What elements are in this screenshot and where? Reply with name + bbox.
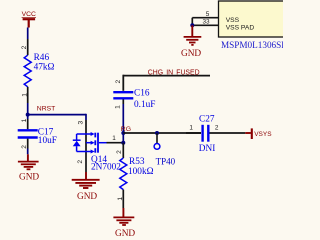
wire NRST corner down to Q14: [85, 114, 87, 120]
pin 2 of R53: [122, 143, 124, 158]
capacitor C17: [18, 127, 57, 146]
ground (IC): [184, 25, 202, 45]
svg-text:1: 1: [21, 93, 28, 97]
transistor Q14: [73, 132, 107, 154]
svg-text:NRST: NRST: [37, 106, 56, 113]
svg-text:VSS: VSS: [226, 17, 240, 24]
svg-text:TP40: TP40: [156, 157, 176, 167]
body diode cathode bar: [73, 139, 81, 141]
svg-text:0.1uF: 0.1uF: [134, 100, 155, 110]
bottom rail: [77, 151, 92, 153]
node TP40 junction: [155, 131, 159, 135]
IC U1 MSPM0L1306SRGER body: [219, 1, 307, 50]
ground (R53): [113, 208, 134, 225]
svg-text:GND: GND: [77, 192, 97, 202]
wire NRST node down to C17: [27, 115, 29, 119]
svg-text:VSYS: VSYS: [254, 131, 272, 138]
resistor R46: [24, 53, 54, 87]
pin 3 of Q14: [85, 120, 87, 134]
pin 1 of C16: [122, 99, 124, 104]
node chip ground junction: [190, 23, 194, 27]
svg-text:1: 1: [114, 105, 121, 109]
svg-text:10uF: 10uF: [38, 136, 57, 146]
node RG junction: [121, 131, 125, 135]
svg-text:5: 5: [206, 11, 210, 18]
svg-text:GND: GND: [181, 49, 201, 59]
channel segments: [94, 133, 96, 138]
capacitor C16: [113, 88, 155, 110]
wire C16 to RG node: [122, 104, 124, 133]
svg-text:C27: C27: [199, 115, 215, 125]
wire CHG IN FUSED: [123, 75, 210, 91]
body diode anode triangle: [73, 141, 81, 146]
pin 2 of Q14: [85, 152, 87, 173]
pin 1 of C17: [27, 119, 29, 129]
wire C17 to ground: [27, 149, 29, 155]
svg-text:2: 2: [21, 145, 28, 149]
wire pin5 to pin33: [191, 18, 193, 26]
test point TP40: [154, 133, 176, 167]
gate bar: [97, 133, 99, 153]
svg-text:1: 1: [117, 197, 124, 201]
wire R46 to NRST node: [27, 103, 29, 115]
svg-text:CHG IN FUSED: CHG IN FUSED: [148, 69, 200, 76]
svg-text:100kΩ: 100kΩ: [128, 167, 154, 177]
wire RG vertical to gate node: [122, 133, 124, 143]
svg-text:VSS PAD: VSS PAD: [226, 25, 255, 32]
pin 1 of R53: [122, 190, 124, 208]
svg-text:VCC: VCC: [22, 11, 36, 18]
top rail: [77, 133, 92, 135]
pin 1 of C27: [186, 132, 201, 134]
ground (C17): [18, 154, 39, 169]
ground (Q14): [72, 172, 100, 188]
svg-text:2: 2: [77, 160, 84, 164]
resistor R53: [120, 157, 154, 190]
svg-text:47kΩ: 47kΩ: [34, 63, 55, 73]
wire NRST horizontal: [28, 114, 86, 116]
svg-text:2: 2: [215, 124, 219, 131]
svg-text:GND: GND: [19, 172, 39, 182]
drain-source line through Q14: [85, 134, 87, 152]
pin 2 of C17: [27, 139, 29, 149]
power port VCC: [22, 11, 36, 28]
capacitor C27: [199, 115, 216, 155]
svg-text:2N7002: 2N7002: [91, 163, 121, 173]
svg-text:MSPM0L1306SRGER: MSPM0L1306SRGER: [221, 40, 283, 50]
pin 2 of R46: [27, 39, 29, 55]
svg-text:2: 2: [116, 150, 123, 154]
svg-text:33: 33: [202, 19, 210, 26]
pin 1 of Q14 (gate): [107, 142, 124, 144]
pin 1 of R46: [27, 87, 29, 103]
channel arrows: [91, 132, 95, 136]
svg-text:1: 1: [112, 135, 116, 142]
svg-text:GND: GND: [115, 229, 135, 239]
svg-text:C16: C16: [134, 88, 150, 98]
pin 2 of C27: [210, 132, 246, 134]
svg-text:DNI: DNI: [199, 144, 216, 154]
svg-text:2: 2: [21, 45, 28, 49]
node gate junction: [121, 141, 125, 145]
pin 5 VSS: [192, 17, 218, 19]
gate lead: [99, 142, 107, 144]
pin 33 VSS PAD: [192, 24, 218, 26]
svg-text:1: 1: [189, 124, 193, 131]
svg-text:1: 1: [21, 118, 28, 122]
wire VCC to R46 pin 2: [27, 28, 29, 40]
svg-text:2: 2: [115, 79, 122, 83]
node NRST junction: [26, 113, 30, 117]
svg-text:3: 3: [77, 120, 84, 124]
left diode branch: [76, 134, 78, 140]
wire RG horizontal to C27: [123, 132, 201, 134]
svg-text:R53: R53: [129, 157, 145, 167]
power port VSYS: [245, 128, 272, 139]
svg-text:R46: R46: [34, 53, 50, 63]
